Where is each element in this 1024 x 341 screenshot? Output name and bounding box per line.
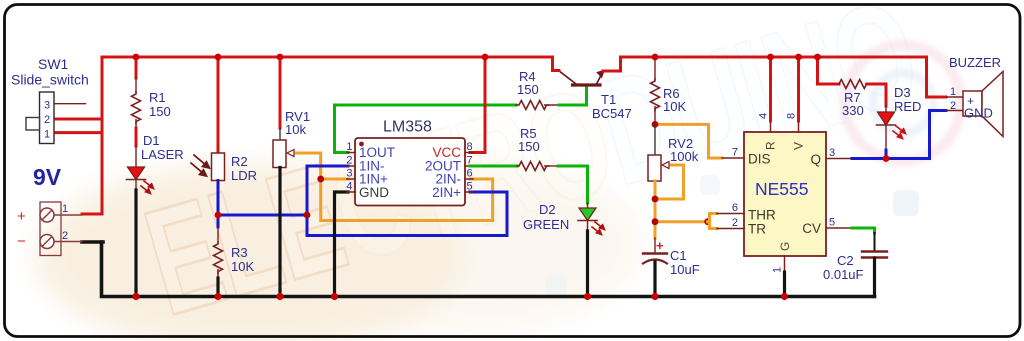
wire: D3 cathode to Q line (blue) <box>885 150 888 159</box>
wire: R6/RV2 node to DIS (orange) <box>655 124 722 158</box>
capacitor C2 <box>823 228 887 297</box>
svg-text:2: 2 <box>44 114 50 126</box>
svg-text:2: 2 <box>950 100 956 112</box>
svg-text:DIS: DIS <box>748 152 771 167</box>
svg-text:100k: 100k <box>670 149 699 164</box>
svg-text:BC547: BC547 <box>592 106 632 121</box>
svg-text:3: 3 <box>346 168 352 180</box>
LED D2 GREEN <box>523 202 605 235</box>
resistor R1 <box>132 57 171 128</box>
svg-text:T1: T1 <box>601 92 616 107</box>
wire: R1 to D1 <box>135 128 138 146</box>
timer U2 NE555 <box>717 113 852 273</box>
wire: THR/TR line (orange) <box>655 220 708 223</box>
wire: battery plus to rail <box>82 213 102 216</box>
svg-text:1: 1 <box>44 129 50 141</box>
svg-text:6: 6 <box>467 168 473 180</box>
svg-text:1: 1 <box>772 267 784 273</box>
wire: THR jog (orange) <box>708 214 717 222</box>
junction RV2 wiper node <box>652 196 659 203</box>
svg-text:3: 3 <box>829 147 835 159</box>
wire: TR jog (orange) <box>708 222 717 229</box>
resistor R6 <box>651 57 687 124</box>
svg-text:−: − <box>17 233 26 250</box>
wire: Q to buzzer (blue) <box>852 111 946 159</box>
junction THR/TR split <box>652 218 712 225</box>
wire: D1 cathode to bus <box>134 190 137 297</box>
wire: 1OUT to R4 (green) <box>335 105 517 153</box>
svg-text:10uF: 10uF <box>670 262 700 277</box>
svg-text:9V: 9V <box>33 164 62 190</box>
svg-text:10k: 10k <box>285 122 306 137</box>
svg-text:VCC: VCC <box>432 145 461 160</box>
svg-text:G: G <box>778 242 792 251</box>
svg-text:+: + <box>656 238 664 253</box>
svg-text:4: 4 <box>346 181 352 193</box>
junction dots on bus <box>132 293 788 300</box>
transistor Q1 T1 BC547 <box>553 57 632 121</box>
wire: R4 to T1 base (green) <box>559 86 587 105</box>
svg-text:330: 330 <box>842 103 864 118</box>
svg-text:GND: GND <box>964 106 993 121</box>
svg-text:150: 150 <box>517 82 539 97</box>
wire: RV1 wiper to 1IN+ (orange) <box>296 153 493 221</box>
wire: SW1 pin 1 to battery plus <box>56 131 102 134</box>
svg-text:LM358: LM358 <box>383 119 432 136</box>
svg-text:2: 2 <box>732 217 738 229</box>
svg-text:4: 4 <box>758 113 770 119</box>
svg-text:C2: C2 <box>837 253 854 268</box>
svg-text:8: 8 <box>467 141 473 153</box>
svg-text:5: 5 <box>829 217 835 229</box>
potentiometer RV1 <box>273 109 310 168</box>
svg-text:BUZZER: BUZZER <box>949 55 1001 70</box>
wire: rail to LDR <box>217 57 220 153</box>
svg-text:Slide_switch: Slide_switch <box>11 72 89 88</box>
svg-text:2: 2 <box>346 155 352 167</box>
svg-text:150: 150 <box>518 139 540 154</box>
junction orange node <box>317 176 324 183</box>
svg-text:R1: R1 <box>149 90 166 105</box>
svg-text:C1: C1 <box>670 248 687 263</box>
svg-text:3: 3 <box>44 100 50 112</box>
capacitor C1 <box>643 238 700 277</box>
svg-text:2: 2 <box>62 230 68 242</box>
LED D3 RED <box>877 85 922 150</box>
wire: rail to NE555 pin8 <box>797 57 800 121</box>
wire: divider node to pin2 riser (blue) <box>218 214 307 217</box>
wire: C1 to bus <box>653 262 656 297</box>
svg-text:RED: RED <box>894 99 921 114</box>
LDR R2 <box>191 153 257 183</box>
switch SW1 <box>11 56 89 144</box>
svg-text:CV: CV <box>802 221 821 236</box>
svg-text:1: 1 <box>950 86 956 98</box>
svg-text:Q: Q <box>810 152 821 167</box>
wire: LDR to divider node (blue) <box>217 181 220 228</box>
svg-text:TR: TR <box>748 222 766 237</box>
resistor R7 <box>818 57 887 118</box>
wire: RV2 bottom to THR/TR node (orange) <box>654 181 657 238</box>
svg-text:150: 150 <box>149 104 171 119</box>
svg-text:1: 1 <box>346 141 352 153</box>
svg-text:R2: R2 <box>231 154 248 169</box>
svg-text:NE555: NE555 <box>755 179 809 199</box>
svg-text:+: + <box>17 208 26 225</box>
svg-text:R: R <box>764 141 778 150</box>
svg-text:D2: D2 <box>539 202 556 217</box>
wire: battery minus to bus <box>82 240 103 244</box>
wire: R3 to bus <box>216 278 219 297</box>
svg-text:GREEN: GREEN <box>523 217 569 232</box>
wire: 9V rail left segment <box>102 57 553 214</box>
junction Q/D3 <box>883 155 890 162</box>
wire: NE555 pin1 to bus <box>783 272 786 297</box>
svg-text:6: 6 <box>732 202 738 214</box>
wire: RV2 wiper loop (orange) <box>655 165 684 199</box>
junction blue node <box>304 212 311 219</box>
svg-text:10K: 10K <box>663 99 686 114</box>
resistor R3 <box>214 227 255 278</box>
svg-text:2IN+: 2IN+ <box>432 185 461 200</box>
SW1 pin 3 stub <box>54 103 86 105</box>
wire: 1IN- to 2IN+ loop (blue) <box>307 166 507 236</box>
wire: rail to NE555 pin4 <box>769 57 772 121</box>
svg-text:SW1: SW1 <box>38 56 69 72</box>
wire: ground bus <box>102 242 875 297</box>
wire: rail to buzzer plus <box>927 57 947 97</box>
junction divider node <box>215 212 222 219</box>
wire: rail to RV1 <box>279 57 282 128</box>
wire: SW1 pin 2 to rail <box>56 118 102 121</box>
junction dots on rail <box>133 54 821 61</box>
svg-text:LASER: LASER <box>141 147 184 162</box>
LED D1 LASER <box>127 133 184 194</box>
svg-text:GND: GND <box>359 185 389 200</box>
svg-text:LDR: LDR <box>231 168 257 183</box>
svg-text:0.01uF: 0.01uF <box>823 267 864 282</box>
wire: LM358 GND to bus <box>335 192 349 297</box>
wire: 2OUT to R5 (green) <box>470 165 517 168</box>
buzzer LS1 <box>946 55 1003 137</box>
svg-text:D3: D3 <box>894 85 911 100</box>
battery connector 9V <box>17 164 82 256</box>
wire: 1IN+ stub (orange) <box>321 178 348 181</box>
svg-text:R3: R3 <box>231 245 248 260</box>
svg-text:THR: THR <box>748 208 776 223</box>
svg-text:D1: D1 <box>143 133 160 148</box>
svg-text:5: 5 <box>467 181 473 193</box>
svg-text:V: V <box>792 142 806 150</box>
junction R6/RV2 node <box>652 121 659 128</box>
resistor R4 <box>516 69 559 110</box>
wire: R5 to D2 (green) <box>558 166 588 203</box>
resistor R5 <box>517 126 558 171</box>
svg-text:1: 1 <box>62 203 68 215</box>
svg-text:8: 8 <box>786 113 798 119</box>
svg-text:10K: 10K <box>231 259 254 274</box>
wire: 9V rail right segment <box>621 56 927 59</box>
wire: RV1 bottom to bus <box>278 168 281 297</box>
wire: VCC riser <box>470 57 485 153</box>
wire: D2 cathode to bus <box>586 231 589 297</box>
potentiometer RV2 <box>648 124 699 181</box>
svg-text:7: 7 <box>732 147 738 159</box>
op-amp U1 LM358 <box>346 119 473 206</box>
